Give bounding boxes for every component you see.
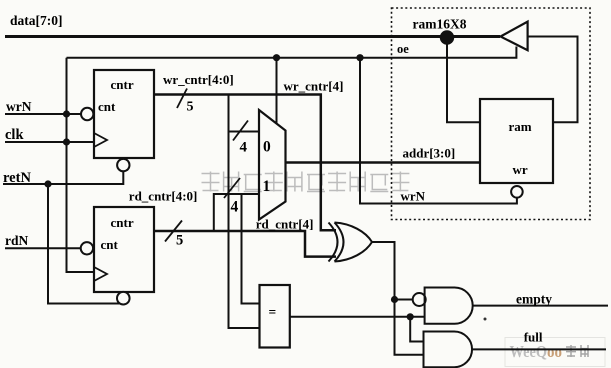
svg-text:oo: oo	[547, 342, 562, 361]
svg-text:wrN: wrN	[401, 189, 426, 204]
svg-text:rdN: rdN	[5, 233, 29, 248]
svg-text:empty: empty	[516, 292, 552, 307]
svg-text:=: =	[269, 305, 277, 320]
svg-text:cntr: cntr	[111, 77, 134, 92]
svg-text:ram16X8: ram16X8	[413, 17, 467, 32]
svg-text:4: 4	[231, 199, 239, 216]
svg-text:data[7:0]: data[7:0]	[10, 13, 63, 28]
svg-text:4: 4	[240, 140, 248, 156]
svg-text:rd_cntr[4:0]: rd_cntr[4:0]	[129, 189, 198, 204]
svg-text:full: full	[524, 330, 543, 345]
svg-text:5: 5	[176, 233, 183, 249]
svg-text:5: 5	[187, 100, 194, 115]
svg-text:WeeQ: WeeQ	[510, 342, 548, 361]
svg-text:wr_cntr[4]: wr_cntr[4]	[284, 79, 344, 94]
svg-text:cnt: cnt	[98, 99, 116, 114]
svg-text:wr_cntr[4:0]: wr_cntr[4:0]	[163, 72, 234, 87]
svg-text:oe: oe	[397, 42, 409, 56]
svg-text:clk: clk	[5, 127, 24, 143]
svg-text:addr[3:0]: addr[3:0]	[403, 146, 456, 161]
svg-text:wr: wr	[513, 162, 528, 177]
svg-text:wrN: wrN	[6, 99, 32, 114]
svg-text:0: 0	[263, 139, 271, 156]
svg-text:ram: ram	[509, 119, 532, 134]
svg-text:1: 1	[263, 178, 271, 195]
svg-text:cnt: cnt	[101, 237, 119, 252]
svg-text:rd_cntr[4]: rd_cntr[4]	[256, 217, 314, 232]
svg-text:retN: retN	[3, 170, 31, 186]
svg-text:cntr: cntr	[111, 215, 134, 230]
